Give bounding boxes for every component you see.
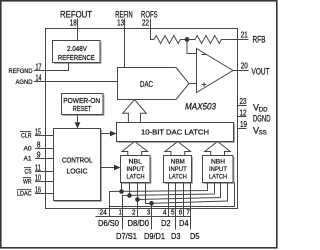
pin 20 VOUT bbox=[238, 62, 270, 77]
pin 18 REFOUT bbox=[60, 10, 92, 28]
svg-text:21: 21 bbox=[241, 31, 248, 40]
bus arrow NBH latch to 10-bit DAC latch bbox=[205, 142, 231, 156]
pin 23 VDD bbox=[238, 97, 269, 113]
op-amp U1 bbox=[197, 49, 234, 93]
svg-text:D3: D3 bbox=[171, 231, 181, 241]
wire REFIN to DAC bbox=[124, 19, 126, 69]
10-bit DAC latch bbox=[117, 123, 235, 143]
NBM input latch bbox=[164, 156, 193, 184]
control logic block bbox=[54, 129, 102, 202]
wire pin 3 stub bbox=[151, 204, 153, 230]
pin 22 ROFS bbox=[141, 10, 158, 28]
svg-text:12: 12 bbox=[240, 108, 247, 117]
wire NBM bit3 to pin 7 bbox=[190, 183, 192, 230]
junction pin 3 on line D bbox=[149, 201, 154, 206]
svg-text:1: 1 bbox=[119, 207, 122, 216]
svg-text:A0: A0 bbox=[24, 145, 32, 152]
svg-text:D7/S1: D7/S1 bbox=[116, 231, 137, 241]
bus arrow NBL latch to 10-bit DAC latch bbox=[122, 142, 148, 156]
pin 12 DGND bbox=[238, 108, 271, 123]
bus wire line A pin 24 to NBH bit0 bbox=[110, 183, 208, 217]
svg-text:18: 18 bbox=[70, 18, 77, 27]
wire NBM bit1 to pin 5 bbox=[175, 183, 177, 230]
svg-text:A1: A1 bbox=[24, 155, 32, 162]
NBH input latch bbox=[203, 156, 235, 184]
svg-text:LATCH: LATCH bbox=[127, 174, 145, 181]
svg-text:NBM: NBM bbox=[171, 159, 185, 166]
pin row underline bbox=[96, 216, 191, 218]
bus wire line B pin 1 to NBH bit1 bbox=[123, 183, 215, 230]
svg-text:DAC: DAC bbox=[140, 80, 153, 89]
pin 21 RFB bbox=[238, 31, 266, 45]
svg-text:13: 13 bbox=[117, 18, 124, 27]
wire NBM bit2 to pin 6 bbox=[183, 183, 185, 217]
wire AGND to DAC bbox=[34, 81, 118, 83]
arrow control logic to 10-bit DAC latch bbox=[101, 131, 117, 137]
pin 13 REFIN bbox=[115, 10, 132, 28]
svg-text:SS: SS bbox=[259, 130, 267, 136]
svg-text:2: 2 bbox=[132, 207, 136, 216]
svg-text:RFB: RFB bbox=[253, 35, 266, 45]
junction NBL bit0 bbox=[119, 183, 124, 194]
svg-text:WR: WR bbox=[23, 178, 32, 185]
svg-text:D2: D2 bbox=[161, 218, 171, 228]
svg-text:19: 19 bbox=[240, 120, 247, 129]
svg-text:5: 5 bbox=[171, 207, 175, 216]
pin 9 A1 bbox=[24, 151, 54, 163]
svg-text:CS: CS bbox=[25, 168, 32, 175]
svg-text:CONTROL: CONTROL bbox=[62, 156, 93, 165]
junction pin 2 / NBL bit2 bbox=[135, 197, 140, 202]
wire ROFS to resistor R1 bbox=[151, 19, 155, 40]
svg-text:3: 3 bbox=[147, 207, 151, 216]
svg-text:D9/D1: D9/D1 bbox=[144, 231, 165, 241]
pin 16 LDAC bbox=[17, 186, 54, 198]
arrow control logic to NBL input latch bbox=[101, 165, 121, 171]
resistor R2 bbox=[187, 36, 238, 44]
wire NBM bit0 to pin 4 bbox=[168, 183, 170, 217]
bus arrow 10-bit DAC latch to DAC bbox=[123, 100, 147, 123]
pin 17 REFGND bbox=[9, 63, 42, 75]
wire REFGND to reference block bbox=[34, 63, 69, 71]
resistor R1 bbox=[154, 36, 187, 44]
svg-text:10-BIT DAC LATCH: 10-BIT DAC LATCH bbox=[141, 128, 209, 137]
svg-text:23: 23 bbox=[240, 97, 247, 106]
svg-text:LATCH: LATCH bbox=[209, 174, 227, 181]
svg-text:LOGIC: LOGIC bbox=[67, 167, 88, 176]
svg-text:INPUT: INPUT bbox=[169, 166, 187, 173]
wire REFOUT to reference block bbox=[77, 19, 79, 42]
wire node to op-amp inverting input bbox=[187, 42, 197, 54]
wire latch enable to NBH bbox=[110, 183, 235, 207]
svg-text:6: 6 bbox=[179, 207, 183, 216]
svg-text:NBL: NBL bbox=[129, 159, 143, 166]
svg-text:4: 4 bbox=[163, 207, 167, 216]
svg-text:RESET: RESET bbox=[73, 104, 92, 113]
power-on reset block bbox=[62, 94, 105, 116]
svg-text:NBH: NBH bbox=[211, 159, 225, 166]
pin 8 A0 bbox=[24, 141, 54, 153]
junction NBL bit1 bbox=[127, 183, 132, 198]
svg-text:REFGND: REFGND bbox=[9, 68, 33, 75]
svg-text:REFERENCE: REFERENCE bbox=[58, 53, 95, 62]
arrow power-on reset to control logic bbox=[75, 115, 81, 129]
svg-text:7: 7 bbox=[186, 207, 190, 216]
pin 10 WR bbox=[23, 174, 54, 186]
svg-text:INPUT: INPUT bbox=[209, 166, 227, 173]
svg-text:AGND: AGND bbox=[16, 79, 33, 86]
NBL input latch bbox=[121, 156, 152, 184]
svg-text:LDAC: LDAC bbox=[17, 190, 32, 197]
svg-text:20: 20 bbox=[241, 62, 248, 71]
bus wire line C pin 2 to NBH bit2 bbox=[137, 183, 139, 217]
svg-text:D4: D4 bbox=[179, 218, 189, 228]
svg-text:MAX503: MAX503 bbox=[185, 102, 217, 112]
svg-text:LATCH: LATCH bbox=[169, 174, 187, 181]
svg-text:D5: D5 bbox=[190, 231, 200, 241]
pin 19 VSS bbox=[238, 120, 267, 136]
node feedback junction bbox=[185, 37, 190, 42]
svg-text:VOUT: VOUT bbox=[252, 67, 270, 77]
svg-text:D6/S0: D6/S0 bbox=[98, 218, 119, 228]
IC boundary MAX503 bbox=[46, 29, 238, 209]
svg-text:D8/D0: D8/D0 bbox=[128, 218, 150, 228]
DAC block bbox=[118, 68, 190, 100]
svg-text:22: 22 bbox=[142, 18, 149, 27]
bus wire line D NBL bit3 to NBH bit3 bbox=[146, 183, 228, 204]
bus arrow NBM latch to 10-bit DAC latch bbox=[165, 142, 191, 156]
svg-text:2.048V: 2.048V bbox=[67, 44, 88, 53]
pin 15 CLR bbox=[20, 128, 54, 140]
svg-text:CLR: CLR bbox=[21, 132, 32, 139]
svg-text:DGND: DGND bbox=[253, 113, 271, 123]
wire op-amp output to VOUT bbox=[233, 70, 238, 72]
svg-text:24: 24 bbox=[100, 207, 107, 216]
wire DAC to op-amp non-inverting input bbox=[189, 83, 197, 85]
pin 11 CS bbox=[24, 164, 54, 176]
svg-text:INPUT: INPUT bbox=[127, 166, 145, 173]
pin 14 AGND bbox=[16, 74, 42, 86]
voltage reference block U-REF bbox=[53, 41, 102, 64]
